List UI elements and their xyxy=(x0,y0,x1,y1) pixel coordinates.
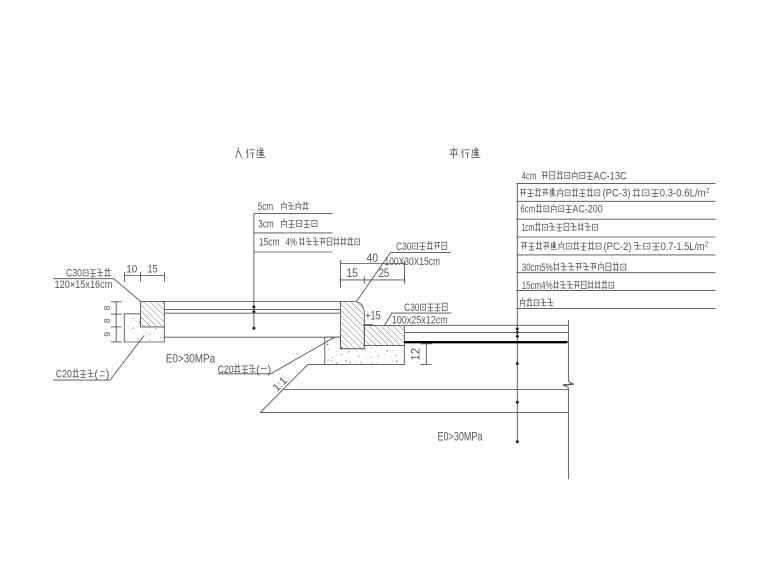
sidewalk layer table rule 1 xyxy=(254,213,333,215)
svg-text:3cm: 3cm xyxy=(258,218,273,230)
roadway layer table rule 3 xyxy=(517,218,716,220)
svg-text:15cm4%: 15cm4% xyxy=(522,280,553,292)
svg-text:(: ( xyxy=(94,369,98,381)
roadway surface top line xyxy=(404,324,568,326)
svg-text:AC-200: AC-200 xyxy=(572,204,602,216)
label C20砼后座(二) xyxy=(56,369,110,381)
roadway row5 text 机械喷洒道路用乳化沥青(PC-2)透层油0.7-1.5L/m2 xyxy=(521,241,708,253)
sidewalk leader dot 3 xyxy=(252,327,255,330)
title sidewalk 人行道 xyxy=(236,148,265,158)
svg-text:C20: C20 xyxy=(56,369,72,381)
subgrade text E0>30MPa left xyxy=(166,353,216,365)
svg-text:E0>30MPa: E0>30MPa xyxy=(166,353,216,365)
sidewalk leader dot 2 xyxy=(252,310,255,313)
svg-text:C30: C30 xyxy=(66,268,82,280)
sidewalk layer table rule 2 xyxy=(254,232,333,234)
svg-text:4%: 4% xyxy=(286,237,298,249)
roadway layer table rule 4 xyxy=(517,236,716,238)
label underline 后座一 xyxy=(218,373,271,375)
level mark tick xyxy=(363,324,373,326)
svg-text:C30: C30 xyxy=(396,241,412,253)
label C30预制砼侧石 xyxy=(396,241,447,253)
svg-text:12: 12 xyxy=(411,348,423,361)
leader to 后座二 xyxy=(110,335,144,380)
dim text 12 xyxy=(411,348,423,361)
kerb strip C30预制压条 hatched block xyxy=(140,302,164,328)
dim extension left xyxy=(339,267,341,288)
svg-text:100x25x12cm: 100x25x12cm xyxy=(392,315,448,327)
label underline 压条 xyxy=(53,278,114,280)
dim text 10 xyxy=(126,264,137,276)
roadway layer table rule 6 xyxy=(517,272,716,274)
flat stone C30预制平石 hatched xyxy=(364,326,404,346)
label 120×15x16cm xyxy=(55,279,113,291)
svg-text:120×15x16cm: 120×15x16cm xyxy=(55,279,113,291)
roadway layer table rule 7 xyxy=(517,290,716,292)
label underline 后座二 xyxy=(53,379,110,381)
break symbol xyxy=(563,381,574,387)
sidewalk row3 text 15cm 4%水泥稳定石屑下基层 xyxy=(259,237,360,249)
dimension line 12 xyxy=(420,344,432,365)
dim text 9 (bottom) xyxy=(102,332,112,337)
svg-text:(PC-2): (PC-2) xyxy=(604,241,632,253)
svg-text:C30: C30 xyxy=(404,302,420,314)
roadway leader dot 1 xyxy=(516,327,519,330)
svg-text:0.7-1.5L/m: 0.7-1.5L/m xyxy=(661,241,705,253)
sidewalk surface line xyxy=(164,301,340,303)
dim text 8 (top) xyxy=(102,305,112,310)
base bottom extension line xyxy=(308,364,325,366)
dim text 15 xyxy=(147,264,157,276)
concrete backing C20砼后座(二) block xyxy=(124,314,164,342)
roadway row7 text 15cm4%水泥稳定石屑下基层 xyxy=(522,280,614,292)
concrete backing C20砼后座(一) block xyxy=(325,337,405,364)
leader to kerb strip xyxy=(114,279,141,302)
svg-text:8: 8 xyxy=(102,305,112,310)
roadway row6 text 30cm5%水泥稳定级配碎石基层 xyxy=(522,262,626,274)
roadway layer table rule 2 xyxy=(517,200,716,202)
dim text 40 xyxy=(367,251,379,265)
svg-text:10: 10 xyxy=(126,264,137,276)
leader to 后座一 xyxy=(271,338,334,374)
sidewalk leader dot 1 xyxy=(252,306,255,309)
level mark +15 text xyxy=(365,311,381,323)
roadway leader dot 6 xyxy=(516,440,519,443)
svg-text:15cm: 15cm xyxy=(259,237,280,249)
sidewalk base bottom line xyxy=(164,336,340,338)
svg-text:AC-13C: AC-13C xyxy=(594,170,627,182)
roadway leader dot 3 xyxy=(516,335,519,338)
roadway leader dot 2 xyxy=(516,331,519,334)
roadway table leader vertical xyxy=(516,183,518,441)
roadway row4 text 1cm沥青表面处治下封层 xyxy=(522,222,598,234)
dim text 25 (flat) xyxy=(379,268,390,280)
subgrade line upper xyxy=(283,389,569,391)
subgrade text E0>30MPa bottom xyxy=(438,432,483,444)
roadway leader dot 4 xyxy=(516,362,519,365)
roadway row1 text 4cm 改性沥青混凝土AC-13C xyxy=(522,170,627,182)
roadway layer table rule 5 xyxy=(517,254,716,256)
svg-text:E0>30MPa: E0>30MPa xyxy=(438,432,483,444)
label 100X30X15cm xyxy=(385,256,441,268)
svg-text:2: 2 xyxy=(705,242,709,249)
svg-text:100X30X15cm: 100X30X15cm xyxy=(385,256,441,268)
subgrade line lower xyxy=(260,411,568,413)
svg-text:25: 25 xyxy=(379,268,390,280)
roadway row3 text 6cm沥青混凝土AC-200 xyxy=(520,204,602,216)
leader to kerb stone xyxy=(357,252,391,301)
svg-text:1cm: 1cm xyxy=(522,222,535,234)
sidewalk mortar bottom line xyxy=(164,312,340,314)
dimension line 10/15 xyxy=(125,272,165,282)
label underline 平石 xyxy=(391,312,451,314)
sidewalk row2 text 3cm 砂浆找平层 xyxy=(258,218,317,230)
dim text 15 (kerb) xyxy=(346,268,358,280)
right boundary vertical lower xyxy=(567,388,569,480)
svg-text:30cm5%: 30cm5% xyxy=(522,262,553,274)
svg-text:5cm: 5cm xyxy=(258,201,273,213)
svg-text:2: 2 xyxy=(706,188,710,195)
roadway row2 text 机械喷洒道路用乳化沥青(PC-3)粘层油0.3-0.6L/m2 xyxy=(520,188,710,200)
svg-text:40: 40 xyxy=(367,251,379,265)
kerb stone C30预制砼侧石 hatched xyxy=(340,302,364,349)
slope text 1:1 xyxy=(271,375,290,394)
svg-text:15: 15 xyxy=(147,264,157,276)
leader to flat stone xyxy=(384,313,391,326)
sidewalk row1 text 5cm 仿花岗岩 xyxy=(258,201,308,213)
label underline 侧石 xyxy=(391,251,451,253)
label C20砼后座(一) xyxy=(218,364,272,376)
label 100x25x12cm xyxy=(392,315,448,327)
roadway row8 text 路基层压实 xyxy=(520,298,553,306)
dimension line 15/25 xyxy=(340,276,404,283)
dim extension right xyxy=(404,267,406,284)
svg-text:6cm: 6cm xyxy=(520,204,535,216)
slope line 1:1 xyxy=(260,365,308,413)
svg-text:): ) xyxy=(106,369,110,381)
svg-text:+15: +15 xyxy=(365,311,381,323)
dimension line 40 xyxy=(340,260,404,267)
roadway binder line xyxy=(404,331,568,333)
title roadway 车行道 xyxy=(450,148,480,158)
sidewalk brick bottom line xyxy=(164,308,340,310)
sidewalk table leader vertical xyxy=(253,214,255,329)
roadway layer table rule 1 xyxy=(517,182,716,184)
svg-text:0.3-0.6L/m: 0.3-0.6L/m xyxy=(660,188,706,200)
svg-text:9: 9 xyxy=(102,332,112,337)
svg-text:4cm: 4cm xyxy=(522,170,537,182)
right boundary vertical upper xyxy=(567,320,569,382)
svg-text:15: 15 xyxy=(346,268,358,280)
sidewalk layer table rule 3 xyxy=(254,251,333,253)
svg-text:8: 8 xyxy=(102,318,112,323)
dim text 8 (mid) xyxy=(102,318,112,323)
roadway layer table rule 8 xyxy=(517,307,716,309)
label C30预制平石 xyxy=(404,302,447,314)
roadway leader dot 5 xyxy=(516,401,519,404)
label C30预制压条 xyxy=(66,268,110,280)
vertical dimension line 8/8/9 xyxy=(111,302,122,342)
roadway base top thick line xyxy=(404,341,567,343)
svg-text:(PC-3): (PC-3) xyxy=(603,188,631,200)
